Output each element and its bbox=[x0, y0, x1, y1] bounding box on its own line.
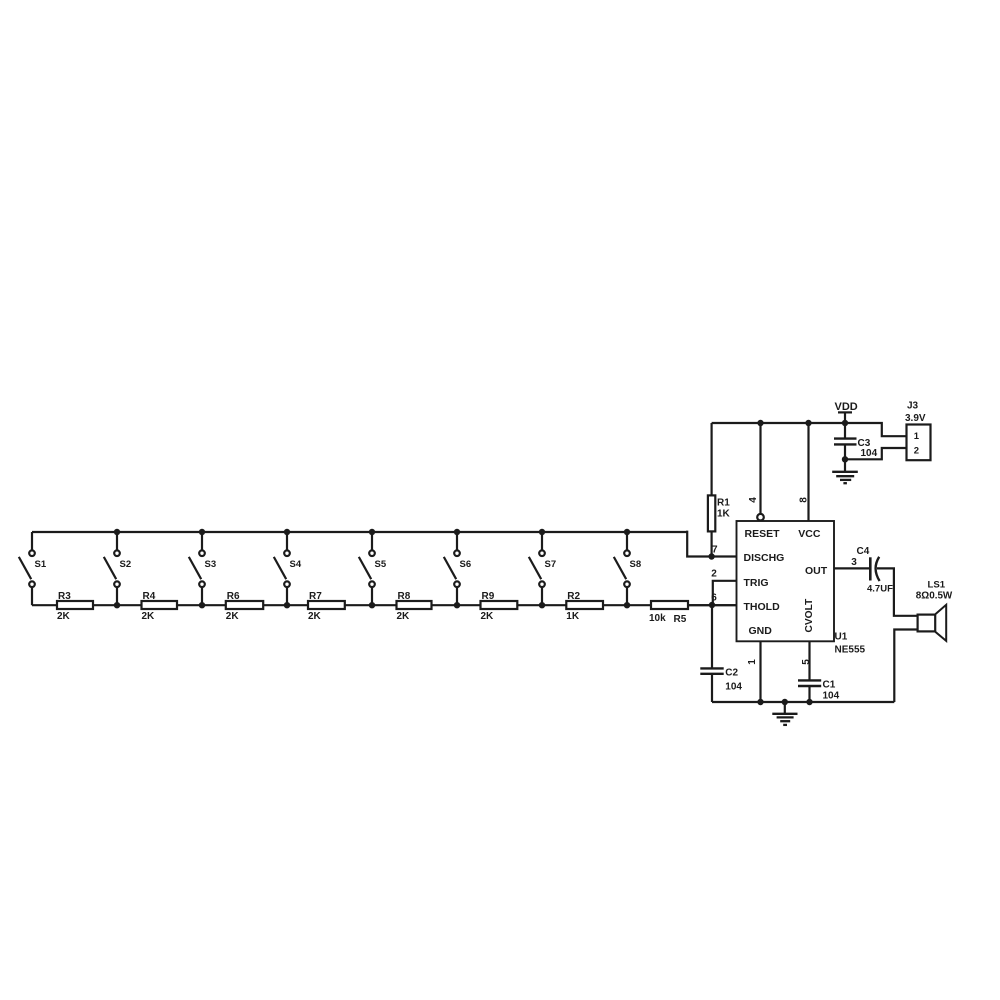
node pin8 tap bbox=[805, 420, 811, 426]
node top rail junction at S5 bbox=[369, 529, 375, 535]
svg-text:R1: R1 bbox=[717, 497, 730, 508]
svg-text:S8: S8 bbox=[630, 559, 642, 570]
capacitor C4 4.7UF bbox=[857, 546, 894, 594]
svg-text:104: 104 bbox=[861, 448, 878, 459]
ground below C3 bbox=[832, 459, 858, 483]
svg-text:S2: S2 bbox=[120, 559, 132, 570]
label 3-9V bbox=[905, 413, 926, 424]
node pin1 rail junction bbox=[757, 699, 763, 705]
svg-text:R7: R7 bbox=[309, 591, 322, 602]
svg-text:OUT: OUT bbox=[805, 565, 828, 577]
svg-text:R4: R4 bbox=[143, 591, 156, 602]
svg-text:2K: 2K bbox=[142, 611, 156, 622]
svg-text:NE555: NE555 bbox=[835, 644, 866, 655]
svg-text:2K: 2K bbox=[226, 611, 240, 622]
svg-text:2K: 2K bbox=[481, 611, 495, 622]
resistor R5 10k bbox=[649, 601, 688, 625]
connector J3 bbox=[907, 425, 931, 461]
wire power rail to R1 bbox=[710, 423, 712, 495]
node bottom rail junction at S4 bbox=[284, 602, 290, 608]
svg-text:S3: S3 bbox=[205, 559, 217, 570]
svg-text:VDD: VDD bbox=[835, 401, 858, 413]
wire pin8 VCC bbox=[807, 423, 809, 521]
svg-text:2K: 2K bbox=[397, 611, 411, 622]
wire top switch rail bbox=[32, 531, 687, 533]
capacitor C1 104 bbox=[798, 680, 840, 703]
node top rail junction at S4 bbox=[284, 529, 290, 535]
label U1 bbox=[835, 631, 848, 642]
ground below rail bbox=[772, 702, 797, 725]
switch S8 bbox=[614, 532, 641, 605]
svg-text:R9: R9 bbox=[482, 591, 495, 602]
wire speaker return bbox=[894, 630, 917, 703]
resistor R6 2K bbox=[226, 591, 263, 622]
speaker LS1 8ohm 0.5W bbox=[916, 579, 953, 641]
svg-text:THOLD: THOLD bbox=[744, 601, 781, 613]
wire TRIG pin2 bbox=[713, 581, 737, 605]
node bottom rail junction at S3 bbox=[199, 602, 205, 608]
resistor R8 2K bbox=[397, 591, 432, 622]
node top rail junction at S3 bbox=[199, 529, 205, 535]
svg-text:GND: GND bbox=[749, 625, 773, 637]
node top rail junction at S2 bbox=[114, 529, 120, 535]
node ground tap bbox=[782, 699, 788, 705]
svg-text:1: 1 bbox=[914, 431, 920, 442]
node VDD junction bbox=[842, 420, 848, 426]
svg-text:VCC: VCC bbox=[798, 528, 821, 540]
wire R1 to pin7 node bbox=[710, 531, 712, 556]
wire GND pin1 bbox=[759, 641, 761, 702]
svg-text:1K: 1K bbox=[717, 508, 731, 519]
svg-text:TRIG: TRIG bbox=[744, 577, 769, 589]
node pin7 junction bbox=[708, 553, 714, 559]
node bottom rail junction at S8 bbox=[624, 602, 630, 608]
wire pin4 RESET bbox=[757, 423, 764, 521]
node bottom rail junction at S5 bbox=[369, 602, 375, 608]
svg-text:J3: J3 bbox=[907, 401, 919, 412]
resistor R2 1K bbox=[566, 591, 603, 622]
switch S2 bbox=[104, 532, 131, 605]
label NE555 bbox=[835, 644, 866, 655]
label J3 bbox=[907, 401, 919, 412]
pin number 6 bbox=[711, 593, 717, 604]
svg-text:8: 8 bbox=[798, 497, 809, 503]
wire J3 pin2 lead bbox=[845, 448, 907, 459]
svg-text:C4: C4 bbox=[857, 546, 870, 557]
wire CVOLT pin5 bbox=[808, 641, 810, 680]
svg-text:4: 4 bbox=[748, 497, 759, 503]
node pin6 junction bbox=[709, 602, 715, 608]
svg-text:2: 2 bbox=[914, 445, 919, 456]
svg-text:S5: S5 bbox=[375, 559, 387, 570]
node C3/J3 pin2 junction bbox=[842, 456, 848, 462]
svg-text:2K: 2K bbox=[308, 611, 322, 622]
switch S6 bbox=[444, 532, 471, 605]
svg-text:R5: R5 bbox=[674, 614, 687, 625]
node bottom rail junction at S6 bbox=[454, 602, 460, 608]
svg-text:S7: S7 bbox=[545, 559, 557, 570]
node pin4 tap bbox=[757, 420, 763, 426]
svg-text:8Ω0.5W: 8Ω0.5W bbox=[916, 590, 953, 601]
wire THOLD to IC bbox=[688, 604, 737, 606]
pin number 5 bbox=[801, 659, 812, 665]
pin number 4 bbox=[748, 497, 759, 503]
switch S1 bbox=[19, 532, 47, 605]
svg-text:R6: R6 bbox=[227, 591, 240, 602]
svg-text:DISCHG: DISCHG bbox=[744, 552, 785, 564]
wire bottom resistor rail (THOLD net) bbox=[32, 604, 737, 606]
svg-text:2: 2 bbox=[711, 569, 717, 580]
resistor R9 2K bbox=[481, 591, 518, 622]
svg-text:104: 104 bbox=[725, 681, 742, 692]
power VDD bbox=[835, 401, 858, 423]
node bottom rail junction at S7 bbox=[539, 602, 545, 608]
capacitor C2 104 bbox=[700, 605, 742, 702]
wire C4 to speaker bbox=[877, 568, 918, 615]
svg-text:3: 3 bbox=[851, 557, 857, 568]
node top rail junction at S6 bbox=[454, 529, 460, 535]
svg-text:S4: S4 bbox=[290, 559, 302, 570]
svg-text:S1: S1 bbox=[35, 559, 47, 570]
svg-text:4.7UF: 4.7UF bbox=[867, 583, 893, 594]
wire OUT pin3 bbox=[834, 567, 870, 569]
switch S4 bbox=[274, 532, 302, 605]
svg-text:R2: R2 bbox=[567, 591, 580, 602]
node C1 rail junction bbox=[806, 699, 812, 705]
svg-text:C1: C1 bbox=[823, 680, 836, 691]
resistor R1 1K bbox=[708, 495, 731, 531]
resistor R3 2K bbox=[57, 591, 93, 622]
pin number 7 bbox=[712, 545, 718, 556]
pin number 2 bbox=[711, 569, 717, 580]
svg-text:R8: R8 bbox=[398, 591, 411, 602]
wire bottom ground rail bbox=[712, 701, 894, 703]
svg-text:CVOLT: CVOLT bbox=[804, 598, 815, 633]
pin number 8 bbox=[798, 497, 809, 503]
switch S5 bbox=[359, 532, 387, 605]
switch S3 bbox=[189, 532, 216, 605]
switch S7 bbox=[529, 532, 556, 605]
svg-text:10k: 10k bbox=[649, 613, 666, 624]
capacitor C3 104 bbox=[834, 423, 878, 459]
svg-text:6: 6 bbox=[711, 593, 717, 604]
svg-text:3.9V: 3.9V bbox=[905, 413, 926, 424]
svg-text:1K: 1K bbox=[566, 611, 580, 622]
svg-text:1: 1 bbox=[747, 659, 758, 665]
svg-text:R3: R3 bbox=[58, 591, 71, 602]
svg-text:7: 7 bbox=[712, 545, 718, 556]
op-amp U1 NE555 body bbox=[737, 521, 835, 641]
node bottom rail junction at S2 bbox=[114, 602, 120, 608]
svg-text:5: 5 bbox=[801, 659, 812, 665]
pin number 3 bbox=[851, 557, 857, 568]
svg-text:LS1: LS1 bbox=[928, 579, 946, 590]
wire J3 pin1 lead bbox=[845, 423, 907, 436]
svg-text:U1: U1 bbox=[835, 631, 848, 642]
svg-text:C2: C2 bbox=[725, 668, 738, 679]
svg-text:104: 104 bbox=[823, 690, 840, 701]
svg-text:S6: S6 bbox=[460, 559, 472, 570]
svg-text:2K: 2K bbox=[57, 611, 71, 622]
node top rail junction at S8 bbox=[624, 529, 630, 535]
pin number 1 bbox=[747, 659, 758, 665]
node top rail junction at S7 bbox=[539, 529, 545, 535]
wire top rail to DISCHG pin7 bbox=[687, 531, 736, 557]
resistor R4 2K bbox=[142, 591, 178, 622]
resistor R7 2K bbox=[308, 591, 345, 622]
svg-text:RESET: RESET bbox=[745, 528, 781, 540]
wire VDD power rail bbox=[712, 422, 845, 424]
